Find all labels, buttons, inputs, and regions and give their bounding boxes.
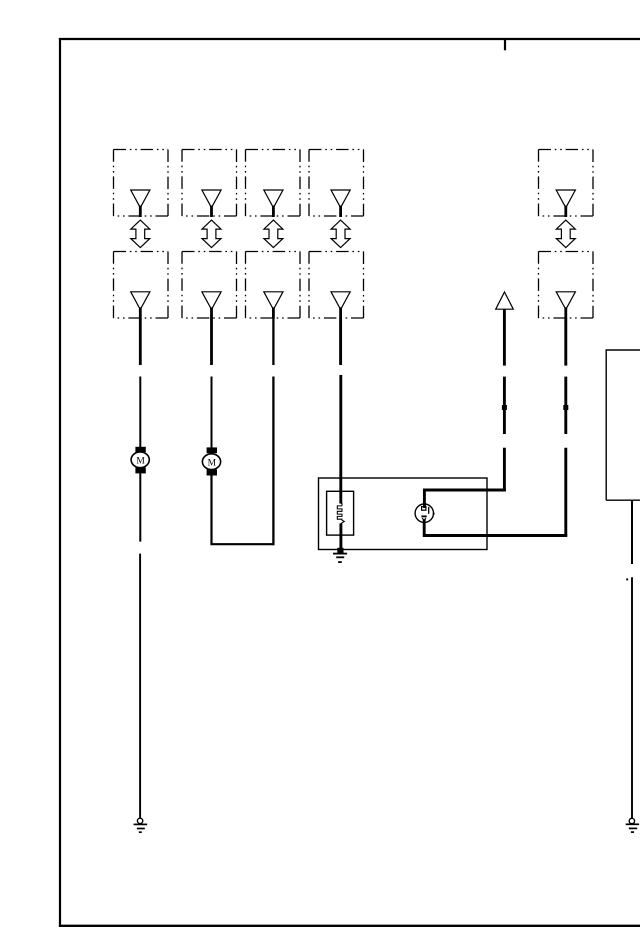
connector C5a pin triangle <box>556 190 575 208</box>
connector C5b pin triangle <box>556 292 575 310</box>
wire stub from C4b pin <box>339 307 342 318</box>
wire W2 upper segment from connector C2b <box>210 318 213 365</box>
wire W2-W3 bottom horizontal link <box>210 543 273 545</box>
inline connector double arrow between C5a and C5b <box>556 220 575 248</box>
ground G1 terminal eyelet <box>137 818 142 823</box>
contact wire stub entering top of circle <box>423 489 426 508</box>
inline connector double arrow between C3a and C3b <box>264 220 283 248</box>
contact detail lower chevron <box>422 518 426 520</box>
connector C4b pin triangle <box>331 292 350 310</box>
motor M2 top terminal <box>207 447 217 453</box>
wire H3 contact bottom to node W6 <box>423 534 567 537</box>
connector C2b dashed outline (lower) <box>182 252 237 319</box>
wire W7 segment from box U1 <box>631 500 633 564</box>
ground G2 connection block <box>337 548 343 553</box>
relay K1 outline <box>319 478 488 550</box>
wire W5 segment C to relay contact <box>503 448 506 492</box>
connector C4a dashed outline (upper) <box>309 150 364 217</box>
ground G2 bar 2 <box>336 556 344 558</box>
connector C5b dashed outline (lower) <box>539 252 594 319</box>
svg-text:M: M <box>208 458 217 468</box>
relay K1 coil enclosure box <box>327 491 354 535</box>
connector C1b dashed outline (lower) <box>114 252 169 319</box>
wire W6 segment B <box>564 377 567 434</box>
motor M1 bottom terminal <box>135 467 145 473</box>
ground G2 bar 3 <box>338 561 342 563</box>
contact detail square <box>422 507 426 511</box>
wire W1 segment to motor M1 <box>139 377 141 448</box>
contact detail bar <box>428 507 430 514</box>
component box U1 (right, cut off by page edge) <box>606 350 640 500</box>
border frame top edge <box>59 38 640 40</box>
connector C2b pin triangle <box>202 292 221 310</box>
connector C4a pin triangle <box>331 190 350 208</box>
border frame bottom edge <box>59 925 640 927</box>
wire W1 segment below motor M1 <box>139 473 141 541</box>
wire W7 lower segment to ground G3 <box>631 577 633 818</box>
svg-text:M: M <box>136 456 145 466</box>
wire stub from C1b pin <box>139 307 142 318</box>
ground G1 bar 3 <box>139 831 142 833</box>
connector C2a dashed outline (upper) <box>182 150 237 217</box>
wire W5 splice dot <box>502 405 507 410</box>
connector C1a dashed outline (upper) <box>114 150 169 217</box>
wire W4 segment into relay K1 coil <box>339 375 342 504</box>
contact wire stub leaving bottom of circle <box>423 519 426 535</box>
connector C2a pin triangle <box>202 190 221 208</box>
wire from coil to ground G2 <box>339 523 342 548</box>
connector C5a dashed outline (upper) <box>539 150 594 217</box>
wire stub from C4a pin <box>339 206 342 218</box>
wire W5 up arrow head <box>496 292 514 309</box>
wire stub from C2a pin <box>210 206 213 218</box>
ground G3 bar 3 <box>631 831 634 833</box>
wire stub from C2b pin <box>210 307 213 318</box>
contact detail right notch <box>433 513 435 515</box>
inline connector double arrow between C2a and C2b <box>202 220 221 248</box>
inline connector double arrow between C4a and C4b <box>331 220 350 248</box>
wire W5 segment B <box>503 377 506 434</box>
ground G1 bar 2 <box>137 828 145 830</box>
component box U1 bottom edge <box>606 499 640 501</box>
wire stub from C3b pin <box>272 307 275 318</box>
wire W2 segment to motor M2 <box>211 377 213 449</box>
wire W6 segment C to relay contact bottom link <box>564 448 567 537</box>
ground G3 bar 2 <box>629 827 637 829</box>
connector C1b pin triangle <box>131 292 150 310</box>
wire W5 segment A <box>503 309 506 365</box>
wire W6 splice dot <box>563 405 568 410</box>
wire stub from C1a pin <box>139 206 142 218</box>
tick mark on top border at node W5 <box>504 40 506 50</box>
connector C4b dashed outline (lower) <box>309 252 364 319</box>
connector C3b pin triangle <box>264 292 283 310</box>
inline connector double arrow between C1a and C1b <box>131 220 150 248</box>
wire W7 tiny splice dot <box>626 578 628 580</box>
ground G2 bar 1 <box>333 553 347 555</box>
connector C3a pin triangle <box>264 190 283 208</box>
connector C3b dashed outline (lower) <box>246 252 301 319</box>
relay K1 contact circle <box>415 504 433 522</box>
motor M1 top terminal <box>135 447 145 452</box>
wire W2 segment below motor M2 <box>210 476 212 545</box>
wire W1 upper segment from connector C1b <box>139 318 142 365</box>
motor M1 body <box>131 452 149 468</box>
connector C1a pin triangle <box>131 190 150 208</box>
wire W4 upper segment from connector C4b <box>339 318 342 365</box>
wire stub from C3a pin <box>272 206 275 218</box>
wire W3 long segment down to link <box>272 377 274 546</box>
wire H2 contact top to node W5 <box>423 489 506 492</box>
wire W1 lower segment to ground G1 <box>139 554 141 818</box>
connector C3a dashed outline (upper) <box>246 150 301 217</box>
motor M2 bottom terminal <box>207 470 217 476</box>
contact detail lower bar <box>421 515 426 517</box>
wire stub from C5b pin <box>564 307 567 318</box>
border frame left edge <box>59 38 61 927</box>
ground G1 bar 1 <box>134 823 148 825</box>
wire stub from C5a pin <box>564 206 567 218</box>
ground G3 bar 1 <box>626 823 639 825</box>
wire W3 upper segment from connector C3b <box>272 318 274 365</box>
wire W6 segment A from connector C5b <box>564 318 567 366</box>
motor M2 body <box>202 454 220 470</box>
relay K1 coil winding <box>337 503 344 523</box>
ground G3 terminal eyelet <box>629 818 634 823</box>
